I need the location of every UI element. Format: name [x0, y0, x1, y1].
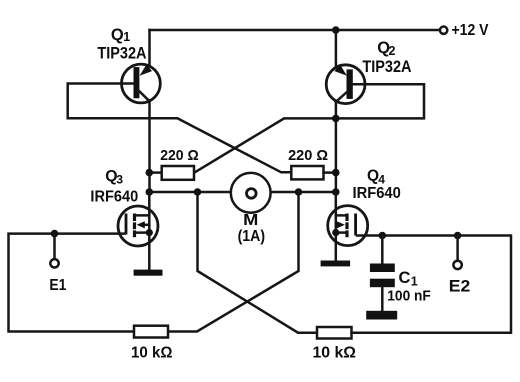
transistor Q3 (IRF640 N-MOSFET) — [118, 192, 158, 270]
junction: Q3 source-body tie — [146, 229, 153, 236]
svg-text:M: M — [243, 212, 258, 229]
transistor Q1 (TIP32A PNP) — [121, 64, 160, 103]
wire: Q2 emitter to rail — [335, 30, 338, 67]
motor M — [231, 173, 271, 213]
svg-text:IRF640: IRF640 — [353, 185, 401, 202]
label IRF640 (Q3) — [90, 188, 138, 205]
svg-text:220 Ω: 220 Ω — [160, 147, 199, 164]
label E2 — [449, 277, 471, 295]
wire: Q2 collector down to Q4 drain — [335, 101, 338, 192]
node: E2 terminal — [453, 261, 461, 269]
ground (C1) — [366, 311, 397, 320]
wire: Q1 collector down to Q3 drain — [148, 101, 151, 193]
svg-text:TIP32A: TIP32A — [97, 44, 146, 62]
junction: Q3 drain — [146, 188, 154, 196]
resistor R1 220 ohm (left) — [149, 166, 194, 180]
label Q4 — [367, 168, 385, 187]
label IRF640 (Q4) — [353, 185, 401, 202]
junction: E2 tap — [454, 232, 462, 240]
resistor R2 220 ohm (right) — [291, 166, 336, 179]
wire: E2 input line from right 10k up to Q4 gate — [352, 236, 512, 333]
capacitor C1 100 nF — [370, 264, 395, 288]
wire: C1 top stub — [381, 236, 384, 264]
junction: R1 left end on Q1 collector line — [146, 169, 154, 177]
junction: motor left terminal — [194, 188, 202, 196]
svg-text:+12 V: +12 V — [452, 22, 489, 39]
label TIP32A (Q2) — [362, 58, 411, 76]
junction: E1 tap — [51, 230, 59, 238]
ground (Q3 source) — [134, 270, 163, 276]
svg-text:C: C — [399, 269, 411, 287]
wire: motor left terminal down and cross to right 10k — [198, 192, 318, 333]
wire: E1 input line to Q3 gate and bottom left — [9, 234, 135, 332]
label 100 nF — [387, 288, 431, 305]
svg-text:TIP32A: TIP32A — [362, 58, 411, 76]
label M — [243, 212, 258, 229]
wire: motor right terminal down and cross to left 10k — [168, 192, 299, 332]
wire: Q1 base loop cross-coupled to R2 (220 ohm right) — [68, 84, 292, 173]
svg-text:100 nF: 100 nF — [387, 288, 431, 305]
label 10 kohm (left) — [131, 344, 173, 361]
label (1A) — [238, 228, 266, 245]
junction: Q4 drain — [332, 188, 340, 196]
junction: C1 tap — [379, 232, 387, 240]
svg-text:2: 2 — [389, 44, 396, 58]
junction: Q4 source-body tie — [332, 229, 339, 236]
label E1 — [49, 277, 66, 294]
junction: R2 right end on Q2 collector line — [332, 169, 340, 177]
svg-text:1: 1 — [123, 30, 130, 44]
label 10 kohm (right) — [313, 345, 357, 362]
junction on rail at Q2 — [332, 26, 340, 34]
svg-text:1: 1 — [411, 275, 418, 289]
node: +12V terminal — [440, 27, 447, 34]
svg-text:3: 3 — [116, 173, 123, 187]
transistor Q2 (TIP32A PNP) — [326, 64, 365, 103]
wire: Q2 base loop cross-coupled to R1 (220 ohm left) — [194, 84, 424, 173]
svg-text:220 Ω: 220 Ω — [288, 147, 328, 164]
label C1 — [399, 269, 418, 289]
wire: E1 terminal stub — [53, 234, 56, 259]
wire: bridge output bus Q3 drain to Q4 drain — [149, 191, 335, 194]
wire: +12V top supply rail — [150, 29, 440, 32]
label 220 ohm (right) — [288, 147, 328, 164]
svg-text:Q: Q — [111, 26, 124, 44]
resistor R3 10 kohm (left) — [134, 326, 168, 338]
label Q2 — [377, 39, 395, 58]
ground (Q4 source) — [321, 261, 351, 267]
label 220 ohm (left) — [160, 147, 199, 164]
wire: E2 terminal stub — [456, 236, 459, 261]
wire: Q1 emitter to rail — [148, 30, 151, 66]
label Q1 — [111, 26, 130, 44]
junction: Q2 collector with base-loop line — [332, 115, 340, 123]
label TIP32A (Q1) — [97, 44, 146, 62]
svg-text:IRF640: IRF640 — [90, 188, 138, 205]
wire: C1 bottom stub to ground — [381, 287, 384, 311]
label Q3 — [105, 168, 123, 186]
svg-text:10 kΩ: 10 kΩ — [313, 345, 357, 362]
transistor Q4 (IRF640 N-MOSFET, mirrored) — [328, 192, 368, 261]
resistor R4 10 kohm (right) — [317, 327, 352, 339]
svg-text:10 kΩ: 10 kΩ — [131, 344, 173, 361]
svg-text:E1: E1 — [49, 277, 66, 294]
svg-text:E2: E2 — [449, 277, 471, 295]
svg-text:(1A): (1A) — [238, 228, 266, 245]
node: E1 terminal — [50, 259, 58, 267]
label +12 V — [452, 22, 489, 39]
junction: motor right terminal — [295, 188, 303, 196]
